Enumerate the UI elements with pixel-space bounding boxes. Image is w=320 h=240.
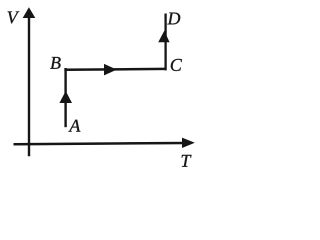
node label C xyxy=(171,59,182,71)
V axis label xyxy=(8,11,20,23)
V axis (vertical line with up arrowhead) xyxy=(23,7,36,156)
T axis label xyxy=(182,155,192,167)
node label A xyxy=(68,120,80,132)
node label B xyxy=(50,57,60,69)
T axis (horizontal line with right arrowhead) xyxy=(14,138,195,148)
node label D xyxy=(167,13,180,25)
process segment B to C (horizontal, arrow right) xyxy=(64,64,166,76)
process segment C to D (vertical, arrow up) xyxy=(158,14,169,71)
process segment A to B (vertical, arrow up) xyxy=(59,68,72,127)
